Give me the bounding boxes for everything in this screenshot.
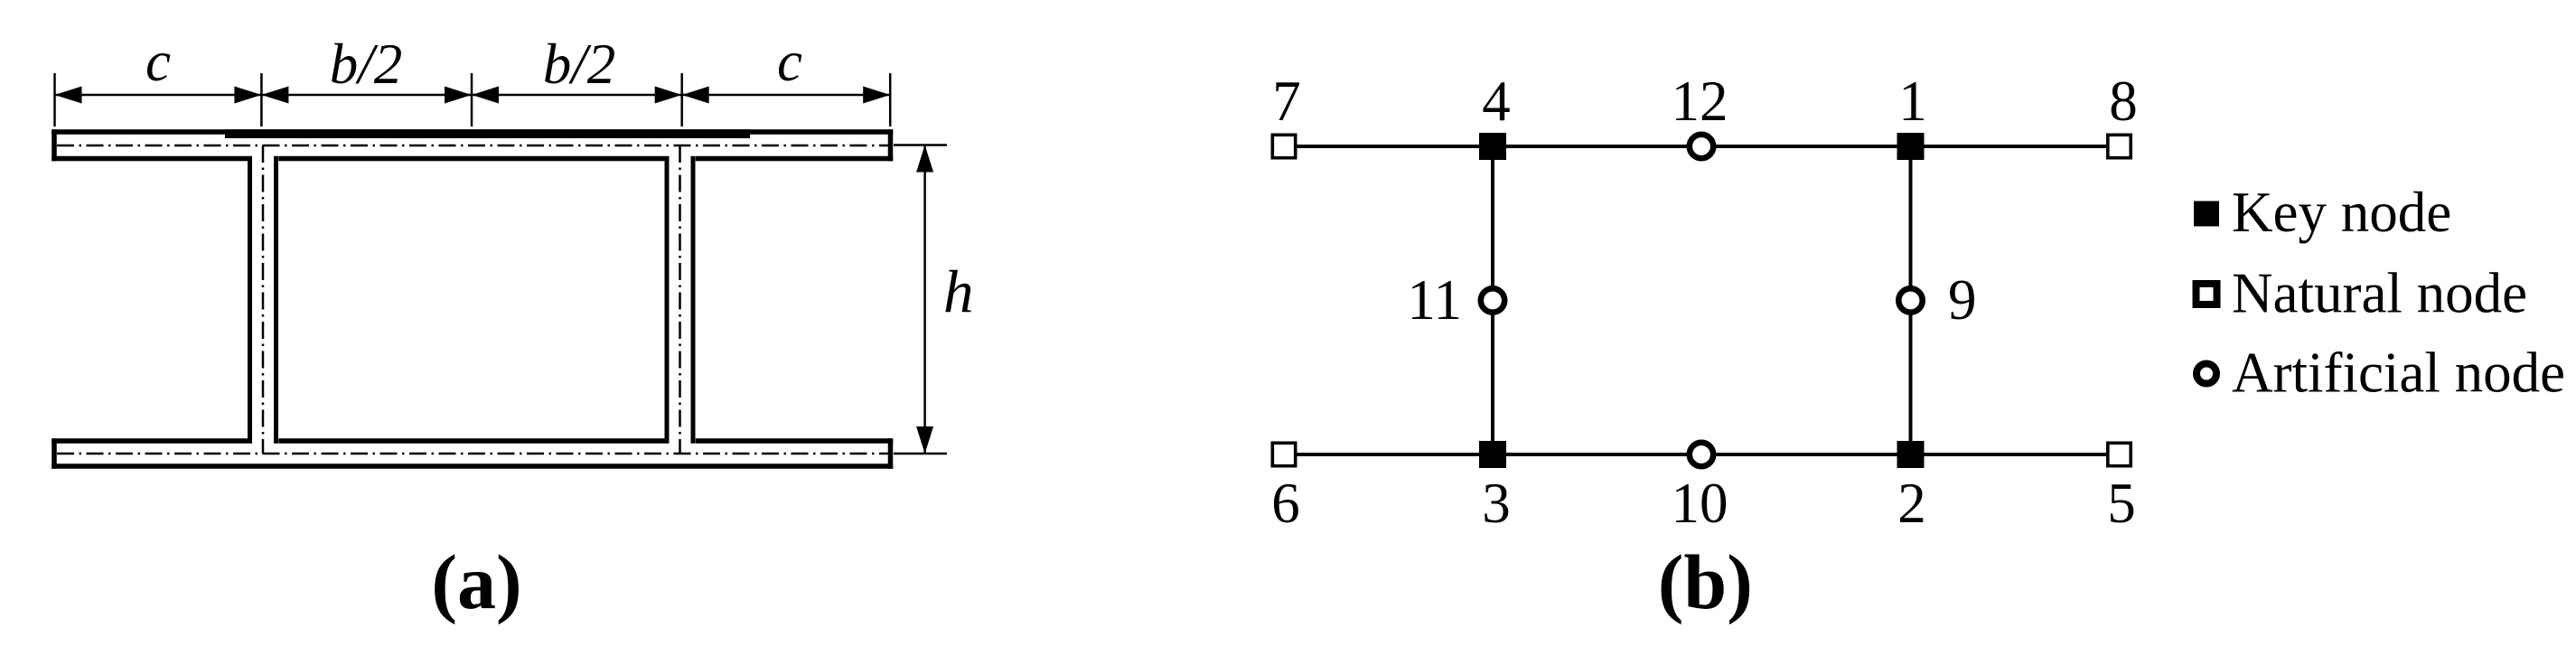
left web line (4-3)	[1491, 146, 1494, 454]
bottom flange bottom edge	[52, 463, 893, 469]
extension line x=522	[471, 73, 473, 126]
node 8 (natural)	[2108, 135, 2131, 157]
extension line x=754.7	[680, 73, 683, 126]
h dimension arrows	[916, 145, 933, 454]
node 11 (artificial)	[1481, 288, 1504, 312]
node 6 (natural)	[1272, 443, 1295, 465]
right web left line	[665, 156, 670, 444]
dimension line (top)	[55, 94, 891, 97]
node 4 (key)	[1479, 133, 1506, 160]
node 2 (key)	[1897, 441, 1925, 468]
svg-text:10: 10	[1672, 472, 1728, 535]
svg-text:6: 6	[1271, 472, 1300, 535]
left web left line	[248, 156, 252, 444]
svg-text:11: 11	[1407, 268, 1462, 332]
centerlines (dash-dot)	[57, 145, 888, 454]
node 9 (artificial)	[1898, 288, 1922, 312]
section outline	[52, 129, 893, 469]
extension line x=60.5	[53, 73, 56, 126]
h dimension	[894, 145, 947, 454]
right web centerline	[679, 145, 681, 454]
node 5 (natural)	[2108, 443, 2131, 465]
svg-text:9: 9	[1948, 268, 1977, 332]
bottom flange left cap	[52, 438, 57, 469]
thick overlay segment on top flange	[225, 129, 750, 138]
node 7 (natural)	[1272, 135, 1295, 157]
svg-text:(b): (b)	[1658, 538, 1753, 625]
svg-text:1: 1	[1898, 70, 1927, 133]
svg-text:c: c	[777, 30, 802, 93]
svg-text:3: 3	[1482, 472, 1511, 535]
h extension line bottom	[894, 453, 947, 455]
top flange top edge	[52, 129, 893, 135]
svg-text:Artificial node: Artificial node	[2232, 342, 2565, 405]
right web right line	[691, 156, 696, 444]
svg-text:Key node: Key node	[2232, 181, 2451, 244]
node 10 (artificial)	[1690, 443, 1713, 466]
h dimension line	[923, 146, 926, 453]
svg-text:7: 7	[1272, 70, 1301, 133]
extension line x=289.4	[260, 73, 263, 126]
node 1 (key)	[1897, 133, 1925, 160]
svg-text:h: h	[943, 258, 974, 325]
svg-text:Natural node: Natural node	[2232, 262, 2527, 325]
svg-text:2: 2	[1897, 472, 1926, 535]
node 3 (key)	[1479, 441, 1506, 468]
extension line x=985.2	[889, 73, 892, 126]
top flange bottom edge segments	[52, 156, 248, 162]
svg-text:(a): (a)	[431, 538, 521, 625]
svg-text:5: 5	[2107, 472, 2136, 535]
legend natural node marker	[2197, 284, 2217, 304]
svg-text:8: 8	[2109, 70, 2138, 133]
legend artificial node marker	[2197, 364, 2216, 384]
svg-text:12: 12	[1672, 70, 1728, 133]
bottom flange top edge segments	[52, 438, 248, 444]
svg-text:c: c	[145, 30, 171, 93]
webs	[250, 156, 694, 444]
top flange right cap	[888, 129, 894, 161]
node 12 (artificial)	[1690, 135, 1713, 158]
top flange centerline	[57, 145, 888, 147]
bottom flange centerline	[57, 453, 888, 455]
right web line (1-2)	[1909, 146, 1913, 454]
legend key node marker	[2194, 201, 2219, 227]
left web centerline	[262, 145, 265, 454]
svg-text:b/2: b/2	[543, 33, 616, 96]
bottom flange right cap	[888, 438, 894, 469]
svg-text:b/2: b/2	[330, 33, 403, 96]
left web right line	[274, 156, 278, 444]
bottom chord line	[1297, 453, 2107, 456]
h extension line top	[894, 144, 947, 146]
arrowheads of top dimension	[55, 87, 891, 104]
top flange left cap	[52, 129, 57, 161]
top chord line	[1297, 145, 2107, 148]
svg-text:4: 4	[1482, 70, 1511, 133]
